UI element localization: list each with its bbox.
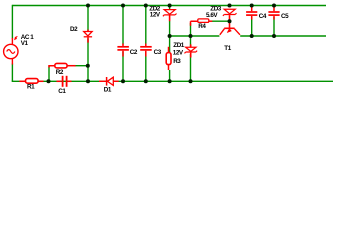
svg-text:C3: C3 (154, 49, 162, 56)
node mid C5 (272, 34, 276, 38)
zener diode ZD2 (163, 10, 177, 22)
svg-text:ZD1: ZD1 (173, 42, 184, 49)
capacitor C2 (117, 44, 128, 57)
wire R4 right to T1 junction (212, 20, 230, 22)
capacitor C5 (268, 6, 279, 20)
wire rail C5 x274 (273, 17, 275, 36)
node top C2 (121, 4, 125, 8)
node R4 gate junction (228, 19, 232, 23)
svg-text:C5: C5 (281, 13, 289, 20)
svg-text:R3: R3 (173, 58, 181, 65)
AC source V1 (4, 38, 18, 65)
node bottom R3 (168, 79, 172, 83)
svg-text:T1: T1 (224, 45, 231, 52)
wire bottom rail (12, 80, 333, 82)
zener diode ZD1 (185, 44, 198, 57)
svg-text:C2: C2 (130, 49, 138, 56)
wire rail C4 x251.7 (251, 17, 253, 36)
svg-text:C1: C1 (58, 88, 66, 94)
diode D1 (99, 77, 119, 86)
thyristor T1 (220, 28, 240, 35)
node mid ZD2/R3 (168, 34, 172, 38)
node bottom D2 rail (86, 79, 90, 83)
resistor R1 (19, 79, 43, 84)
svg-text:5.6V: 5.6V (206, 12, 218, 19)
capacitor C1 (57, 76, 72, 87)
wire bottom-left vertical below V1 (11, 64, 13, 82)
node top ZD3 (228, 4, 232, 8)
capacitor C4 (246, 6, 257, 20)
capacitor C3 (140, 44, 152, 57)
svg-text:V1: V1 (21, 40, 29, 47)
resistor R2 (49, 63, 76, 67)
wire R2 right to D2 rail (75, 65, 89, 67)
svg-text:D2: D2 (70, 26, 78, 33)
wire rail C3 x145.8 (145, 6, 147, 82)
wire rail R4/ZD1 x190.5 (190, 23, 192, 81)
node top ZD2 (168, 4, 172, 8)
node top C4 (250, 4, 254, 8)
node mid ZD1 (189, 34, 193, 38)
resistor R4 (191, 19, 213, 26)
node top C5 (272, 4, 276, 8)
wire middle rail (170, 35, 326, 37)
resistor R3 (166, 47, 171, 70)
diode D2 (84, 30, 92, 43)
svg-text:R1: R1 (27, 84, 35, 91)
svg-text:C4: C4 (259, 13, 267, 20)
node top C3 (144, 4, 148, 8)
junction dots (47, 4, 277, 84)
node top D2 (86, 4, 90, 8)
wire rail ZD2/R3 x169 (169, 6, 171, 82)
wire top rail (12, 5, 326, 7)
V1 polarity arrow (14, 36, 17, 40)
node bottom C3 (144, 79, 148, 83)
svg-text:12V: 12V (150, 12, 161, 19)
svg-text:R2: R2 (56, 69, 64, 76)
node mid C4 (250, 34, 254, 38)
svg-text:D1: D1 (104, 87, 112, 94)
wire R2 left drop x49 (48, 67, 50, 82)
wire rail C2 x123 (122, 6, 124, 82)
svg-text:R4: R4 (198, 23, 206, 30)
svg-text:12V: 12V (173, 50, 184, 57)
node bottom ZD1 (189, 79, 193, 83)
wire left rail vertical (11, 5, 13, 39)
node bottom C2 (121, 79, 125, 83)
zener diode ZD3 (223, 9, 237, 28)
node R2/D2 rail (86, 64, 90, 68)
wire rail D2 x88 (87, 6, 89, 82)
node bottom R1/R2 (47, 79, 51, 83)
